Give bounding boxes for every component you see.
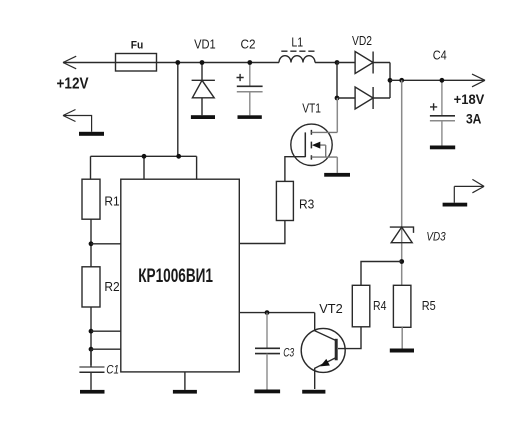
svg-text:R3: R3 [299,196,314,211]
wire bend to IC pin top right [196,156,198,179]
wire to IC pin 2 [91,330,121,332]
junction pin2 node [89,329,94,334]
junction node A (L1/VD2/VT1 drain) [335,60,340,65]
ground (IC) [173,390,197,394]
ground (C2) [238,115,262,119]
svg-text:КР1006ВИ1: КР1006ВИ1 [138,266,213,287]
wire VT1 source to ground [336,157,338,173]
wire to R4 [361,262,402,286]
junction top rail right [176,154,181,159]
wire R1 to R2 [90,219,92,267]
node input arrow [63,56,76,69]
ground arrow left [63,110,92,132]
junction Fu node [175,60,180,65]
svg-text:R1: R1 [104,194,119,209]
capacitor C3 [255,313,280,390]
junction top rail left [142,154,147,159]
resistor R5 [393,285,411,327]
wire sense line to VD3 [401,80,403,285]
op-amp U1 IC KP1006VI1 body [121,179,240,372]
svg-text:R2: R2 [104,279,119,294]
ground (VT1 source) [324,173,350,177]
svg-text:3А: 3А [466,111,482,127]
wire output bus [390,79,485,81]
wire to IC pin 6 [91,348,121,350]
junction C4 node [440,78,445,83]
svg-text:VD1: VD1 [194,36,216,51]
junction R1/R2 divider [89,241,94,246]
diode VD1 [192,63,215,116]
wire stub to IC pin top left [143,156,145,179]
capacitor C4 [430,80,455,145]
wire R4 to VT2 base [338,327,361,349]
ground (C1) [80,390,105,394]
junction R4/R5 node [399,259,404,264]
junction VD1 node [200,60,205,65]
transistor VT1 MOSFET [291,124,338,165]
ground (VT2 emitter) [302,390,325,394]
wire R2 bottom chain [90,307,92,365]
resistor R2 [82,267,100,307]
wire R3 top to VT1 gate [285,157,305,182]
wire node A down to lower diode [336,63,338,99]
ground arrow right [454,179,484,202]
node output arrow [472,74,485,87]
wire top bus +12V input [63,62,279,64]
wire VD2 cathodes join [389,63,391,99]
wire VT1 drain [336,98,338,132]
capacitor C2 [237,63,263,116]
ground (right arrow) [443,203,468,207]
junction output node [388,78,393,83]
ground (VD1) [191,115,215,119]
svg-text:L1: L1 [291,34,303,49]
wire top rail of IC [91,155,197,157]
wire fuse junction down [177,63,179,157]
ground (R5) [390,349,414,353]
svg-text:C4: C4 [433,48,447,63]
svg-text:R4: R4 [373,298,386,313]
svg-text:C1: C1 [106,363,119,377]
wire IC pin 3 to R3 [239,221,285,244]
diode VD2 lower [337,87,390,109]
wire divider to IC pin 5 [91,243,121,245]
svg-text:+18V: +18V [454,91,485,107]
svg-text:C3: C3 [283,346,294,360]
transistor VT2 [301,313,345,389]
inductor L1 [279,51,315,62]
svg-text:+12V: +12V [57,76,89,93]
svg-text:VD2: VD2 [352,33,372,48]
resistor R4 [352,285,370,327]
junction pin6 node [89,347,94,352]
svg-text:VD3: VD3 [426,229,446,243]
wire L1 to node A [315,62,337,64]
zener diode VD3 [390,227,414,243]
wire R5 to ground [401,327,403,348]
svg-text:R5: R5 [422,298,436,313]
junction C2 node [247,60,252,65]
svg-text:VT1: VT1 [302,101,321,116]
capacitor C1 [79,349,104,390]
junction sense tap [399,78,404,83]
ground (C4) [430,146,455,150]
wire IC output to VT2 collector [239,312,314,314]
ground (C3) [254,390,280,394]
resistor R3 [276,181,293,220]
svg-text:VT2: VT2 [319,301,343,316]
ground (left arrow) [79,132,104,136]
junction lower diode node [335,96,340,101]
wire R1 top [90,156,92,179]
wire IC ground pin [184,372,186,390]
resistor R1 [82,179,100,219]
svg-text:Fu: Fu [131,39,144,51]
svg-text:C2: C2 [241,36,256,51]
junction C3 node [265,310,270,315]
fuse Fu [116,54,157,72]
diode VD2 upper [337,52,390,74]
